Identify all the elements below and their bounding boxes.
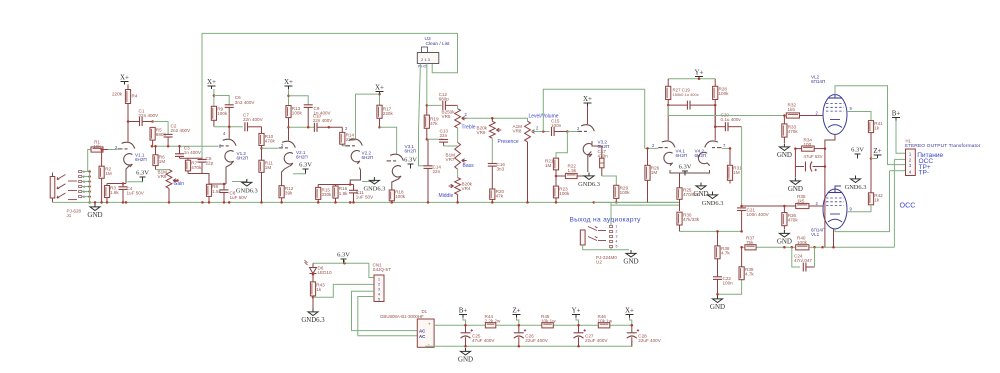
label R13 100k xyxy=(292,106,303,116)
label R40 100k xyxy=(797,236,808,246)
svg-text:GND: GND xyxy=(693,190,708,198)
svg-text:680p: 680p xyxy=(439,96,450,101)
ground GND6.3 at V4 xyxy=(702,192,724,208)
junction dots J1 bus xyxy=(88,170,91,203)
svg-text:100k: 100k xyxy=(217,111,228,116)
svg-text:1k: 1k xyxy=(874,126,880,131)
junction dot VR9 wiper xyxy=(176,179,179,182)
net flag B+ xyxy=(892,110,901,121)
label PJ-628 J1 xyxy=(67,209,82,219)
resistor R7 470k xyxy=(185,158,190,173)
junction dot C1 right xyxy=(151,120,154,123)
wire U2 body ground xyxy=(583,245,611,250)
pin number 2 V4.1 grid xyxy=(652,143,655,148)
capacitor C20 0.1u 400v xyxy=(715,122,741,131)
svg-text:AC: AC xyxy=(419,334,426,339)
capacitor C17 470n box xyxy=(600,146,604,176)
label C17 470n xyxy=(598,149,609,159)
svg-text:Treble: Treble xyxy=(462,124,476,130)
svg-text:47uF 400V: 47uF 400V xyxy=(472,338,495,343)
svg-text:VR9: VR9 xyxy=(158,174,167,179)
net flag Y+ PSU xyxy=(571,307,580,318)
svg-text:4: 4 xyxy=(616,240,618,244)
wire X+2 stem xyxy=(213,89,215,106)
label C11 1uF 50V xyxy=(356,190,374,200)
label R37 75k xyxy=(746,236,755,246)
label Pitanie xyxy=(917,152,943,159)
resistor R44 2.2k 2w xyxy=(485,323,495,328)
wire Y+ stem xyxy=(698,78,700,81)
svg-text:GND: GND xyxy=(87,211,102,219)
label R20 47k xyxy=(496,189,505,199)
svg-text:22uF 400V: 22uF 400V xyxy=(585,338,608,343)
wire U2 bottom to GND xyxy=(611,248,629,250)
junction dot loop2 tap xyxy=(542,130,545,133)
wire VL1 plate TR- loop xyxy=(835,186,841,190)
label R42 1k xyxy=(874,193,883,203)
triode V2.1 xyxy=(279,141,296,166)
resistor R19 47k xyxy=(424,105,429,139)
triode V1.2 xyxy=(219,139,236,164)
svg-text:U3: U3 xyxy=(425,36,431,42)
capacitor C9 1n 400V xyxy=(304,105,313,128)
capacitor C25 47uF 400V xyxy=(461,325,473,346)
label V1.2 6Н2П xyxy=(237,151,249,161)
svg-text:75k: 75k xyxy=(746,240,754,245)
wire C6 supply branch xyxy=(214,96,229,105)
junction dot plate node V1.1 xyxy=(127,120,130,123)
label R35 1k5 xyxy=(797,194,806,204)
label R7 470k xyxy=(191,161,202,171)
svg-text:6Н2П: 6Н2П xyxy=(135,157,147,162)
svg-text:22uF 400V: 22uF 400V xyxy=(525,338,548,343)
wire C20 down to C21 xyxy=(741,127,743,208)
wire plate node stage2 xyxy=(214,126,243,128)
wire VR5 to VR7 xyxy=(457,128,459,142)
heater net 6.3V PSU xyxy=(337,252,350,264)
label R22 1.5k xyxy=(568,164,577,174)
J1 pin header column xyxy=(79,170,85,199)
junction dot V1.2 plate node xyxy=(228,126,231,129)
triode V3.2 xyxy=(578,125,595,157)
junction dots cathode chain xyxy=(824,147,827,167)
ground GND below C22 xyxy=(710,296,725,312)
svg-text:150k0.1u 400v: 150k0.1u 400v xyxy=(673,92,699,97)
svg-text:STEREO OUTPUT Transformator: STEREO OUTPUT Transformator xyxy=(905,143,981,149)
junction dot V4.1 grid xyxy=(646,147,649,150)
svg-text:1M: 1M xyxy=(159,159,166,164)
label R19 47k xyxy=(430,117,439,127)
resistor R9 100k xyxy=(211,106,216,127)
label B1M VR7 xyxy=(446,152,456,162)
capacitor C19 0.1u 400v xyxy=(668,101,715,110)
junction dots bus stage2 xyxy=(223,201,263,204)
bridge rectifier D1 body xyxy=(417,319,434,347)
svg-text:3n3 400V: 3n3 400V xyxy=(235,100,256,105)
junction dot Y+ node xyxy=(698,78,701,81)
wire C15 to V3.2 grid xyxy=(567,131,578,133)
resistor R4 220k xyxy=(125,85,130,122)
triode V2.2 xyxy=(346,139,363,164)
label U3 pins xyxy=(418,65,427,69)
label R34 100 xyxy=(804,138,813,148)
pin number 9 VL2 xyxy=(850,106,853,111)
wire CN1 pin5 to D1 xyxy=(358,297,418,336)
label R8 1.5k xyxy=(212,184,221,194)
wire R14 to V2.2 grid xyxy=(342,145,350,147)
capacitor C13 22n xyxy=(439,140,448,147)
label VL2 6П14П xyxy=(811,75,825,85)
resistor R33 470k xyxy=(782,116,787,144)
triode V4.2 xyxy=(698,141,721,166)
resistor R15 330k xyxy=(316,185,321,203)
svg-text:GND: GND xyxy=(777,151,792,159)
ground GND at V4 xyxy=(693,183,708,199)
wire X+3 stem xyxy=(288,89,290,106)
net flag Y+ xyxy=(694,69,703,80)
net flag X+ fifth xyxy=(583,95,592,106)
ground GND PSU xyxy=(458,348,473,364)
resistor R31 1M xyxy=(727,148,732,183)
resistor R43 1k xyxy=(310,282,315,309)
svg-text:1.8k: 1.8k xyxy=(110,190,119,195)
wire R43 to CN1 xyxy=(313,284,374,297)
label OCC big xyxy=(900,201,916,210)
svg-text:Presence: Presence xyxy=(498,139,519,145)
label R32 1k5 xyxy=(788,103,797,113)
resistor R39 4.7k xyxy=(739,247,744,279)
label R12 39k xyxy=(285,186,294,196)
wire V1.2 plate lead xyxy=(228,127,230,139)
svg-text:GND6.3: GND6.3 xyxy=(236,188,258,195)
wire B+ filter rail xyxy=(434,324,632,326)
wire TR- vertical xyxy=(835,171,890,232)
wire cathodes join xyxy=(670,170,690,173)
pentode VL1 6П14П xyxy=(823,189,847,229)
wire PSU ground bus xyxy=(426,341,632,348)
label OCC pin xyxy=(919,158,934,165)
wire R32 from V4.1 plate xyxy=(668,105,786,115)
svg-text:X+: X+ xyxy=(583,95,592,103)
wire C24 bypass left xyxy=(792,247,800,267)
junction dots PSU ground bus xyxy=(464,345,580,348)
svg-text:22n 400V: 22n 400V xyxy=(313,118,334,123)
resistor R21 1M xyxy=(553,158,558,176)
junction dots ground bus left xyxy=(94,201,128,204)
svg-text:6.3V: 6.3V xyxy=(679,164,692,171)
label R5 680k xyxy=(156,128,167,138)
wire VL2 plate loop xyxy=(835,86,906,165)
junction dot R1-R2 xyxy=(100,148,103,151)
svg-text:1k: 1k xyxy=(316,287,322,292)
resistor R17 220k xyxy=(377,105,382,127)
capacitor C15 100n xyxy=(552,127,568,136)
heater pin 6.3V V2.1 xyxy=(299,162,312,174)
wire V3.1 cathode lead xyxy=(392,179,399,190)
label 6П14П VL1 xyxy=(811,228,825,238)
wire OCC feedback bus xyxy=(742,246,895,248)
label V2.2 6Н2П xyxy=(362,151,374,161)
svg-text:100n 400V: 100n 400V xyxy=(747,212,770,217)
svg-text:X+: X+ xyxy=(207,78,216,86)
junction dots bus V3.2 xyxy=(555,201,618,204)
pin number 2 VR5 wiper xyxy=(465,112,468,117)
pin number 4 V1.2 plate xyxy=(223,131,226,136)
svg-text:1M: 1M xyxy=(733,170,740,175)
resistor R36 470k xyxy=(782,206,787,230)
resistor R30 47k/33k xyxy=(677,212,682,231)
junction dots feedback bus xyxy=(716,230,743,233)
wire C13 to VR7 xyxy=(444,145,458,147)
svg-text:X+: X+ xyxy=(625,307,634,315)
junction dot R19 bottom xyxy=(426,138,429,141)
heater bracket V2.2 xyxy=(362,179,374,182)
svg-text:VR6: VR6 xyxy=(477,130,486,135)
wire R6 to VR9 xyxy=(156,169,170,171)
label TR+ xyxy=(919,164,931,171)
junction dot R17 bottom xyxy=(378,126,381,129)
wire R7 C5 bottoms xyxy=(188,174,209,185)
wire R17 to V3.1 plate xyxy=(380,127,397,153)
svg-text:0.1u 400v: 0.1u 400v xyxy=(721,117,742,122)
svg-text:470k: 470k xyxy=(788,129,799,134)
svg-text:22p: 22p xyxy=(206,160,214,165)
resistor R26 1M xyxy=(645,148,650,202)
wire VR6 bottom to C16 xyxy=(491,138,493,163)
net flag Z+ PSU xyxy=(512,307,520,318)
wire 6.3V rail xyxy=(313,263,374,277)
capacitor C11 1uF 50V xyxy=(349,185,358,203)
pin number 2 V1.1 grid xyxy=(115,145,118,150)
wire Z+ stem xyxy=(871,158,878,160)
label V3.2 6Н2П xyxy=(598,140,610,150)
wire V1.2 cathode lead xyxy=(226,164,232,184)
label R26 1M xyxy=(651,166,660,176)
label V2.1 6Н2П xyxy=(296,150,308,160)
label C12 680p xyxy=(439,92,450,102)
junction dot GND node below xyxy=(716,293,719,296)
label C8 1uF 50V xyxy=(230,190,248,200)
svg-text:Z+: Z+ xyxy=(873,147,881,155)
heater pin 6.3V VL xyxy=(851,147,864,159)
resistor R35 1k5 xyxy=(784,203,822,208)
svg-text:6Н2П: 6Н2П xyxy=(676,153,688,158)
wire Y+ rail xyxy=(668,78,715,80)
wire plate node stage3 xyxy=(289,126,315,128)
resistor R6 1M xyxy=(153,146,158,169)
wire R41 to R42 xyxy=(870,133,872,193)
svg-text:100k: 100k xyxy=(395,194,406,199)
label R1 10k xyxy=(93,140,101,150)
svg-text:GND6.3: GND6.3 xyxy=(578,181,600,188)
resistor R46 10k 1w xyxy=(598,323,610,328)
wire grid leak tap xyxy=(556,132,567,159)
resistor R2 1M xyxy=(99,150,104,203)
resistor R1 10k xyxy=(91,147,108,152)
label B250k VR5 xyxy=(442,110,456,120)
label C28 22uF 400V xyxy=(638,334,661,344)
wire V4.1 grid xyxy=(645,147,658,149)
label C2 2n2 400V xyxy=(171,123,192,133)
svg-text:22uF 400V: 22uF 400V xyxy=(638,338,661,343)
resistor R3 1.8k xyxy=(104,184,109,203)
svg-text:6Н2П: 6Н2П xyxy=(362,155,374,160)
junction dot R33 node xyxy=(783,114,786,117)
svg-text:47k: 47k xyxy=(496,193,504,198)
capacitor C22 100n xyxy=(713,277,722,294)
label C7 22n 400V xyxy=(243,113,264,123)
wire VL2 cathode down xyxy=(825,135,835,248)
label H1 xyxy=(906,139,912,144)
wire heater V1.1 xyxy=(127,181,142,183)
connector J1 PJ-628 input jack body xyxy=(50,173,55,203)
label C22 100n xyxy=(723,276,734,286)
resistor R20 47k xyxy=(490,189,495,202)
wire bus to U2 pins xyxy=(610,202,612,225)
svg-text:Bass: Bass xyxy=(463,163,475,169)
svg-text:Middle: Middle xyxy=(439,193,454,199)
potentiometer VR6 B20k Presence xyxy=(489,118,501,138)
svg-text:X+: X+ xyxy=(284,78,293,86)
wire PSU flag stem xyxy=(463,318,466,326)
svg-text:5: 5 xyxy=(616,245,618,249)
label C24 47n/.047 xyxy=(794,253,812,263)
svg-text:220k: 220k xyxy=(383,111,394,116)
svg-text:6Н2П: 6Н2П xyxy=(405,149,417,154)
wire V2.2 cathode lead xyxy=(350,168,360,185)
svg-text:PJ-05: PJ-05 xyxy=(418,65,427,69)
wire C17 bottom to R29 xyxy=(602,176,617,185)
ground GND6.3 at V1.2 xyxy=(236,179,258,195)
resistor R14 220k xyxy=(340,127,345,146)
label C5 22p xyxy=(206,156,214,166)
svg-text:Y+: Y+ xyxy=(571,307,580,315)
junction dot R36 node xyxy=(783,205,786,208)
svg-text:Z+: Z+ xyxy=(512,307,520,315)
capacitor C4 1uF 50V xyxy=(119,184,128,203)
svg-text:1k5: 1k5 xyxy=(788,107,796,112)
svg-text:470k: 470k xyxy=(788,218,799,223)
wire C3 bottom node xyxy=(180,157,203,159)
capacitor C21 100n 400V xyxy=(737,208,746,232)
capacitor C16 3n3 xyxy=(488,164,497,190)
wire splitter feedback bus xyxy=(680,230,742,232)
svg-text:LED10: LED10 xyxy=(318,270,332,275)
svg-text:2.2k 2w: 2.2k 2w xyxy=(485,318,502,323)
svg-text:J1: J1 xyxy=(67,213,72,218)
connector U2 PJ-324M0 body xyxy=(580,230,585,245)
capacitor C26 22uF 400V xyxy=(514,325,526,346)
U2 switch contacts xyxy=(588,227,606,241)
junction dot VR9 bus xyxy=(168,201,171,204)
potentiometer VR8 A1M Level xyxy=(525,121,537,202)
ground GND6.3 at V2.2 xyxy=(363,177,385,193)
svg-text:2n2 400V: 2n2 400V xyxy=(171,128,192,133)
label C1 22n 400V xyxy=(139,109,160,119)
junction dots filter rail xyxy=(464,324,633,327)
svg-text:100: 100 xyxy=(804,142,812,147)
label CN1 S4JQ-5T xyxy=(373,263,392,273)
svg-text:1uF 50V: 1uF 50V xyxy=(230,195,248,200)
triode V4.1 xyxy=(658,141,675,166)
svg-text:3n3: 3n3 xyxy=(497,167,505,172)
label Clean / List xyxy=(426,41,451,47)
label R45 10k 1w xyxy=(541,314,556,324)
resistor R5 680k xyxy=(150,127,155,146)
label R23 100k xyxy=(559,186,570,196)
junction dot bus stage3 xyxy=(280,201,283,204)
junction dot X+4 branch xyxy=(378,93,381,96)
label C13 22n xyxy=(440,128,449,138)
label C21 100n 400V xyxy=(747,208,770,218)
resistor R40 100k xyxy=(796,245,809,250)
pin number 2 V3.2 grid xyxy=(577,126,580,131)
wire J1 pin bus vertical xyxy=(89,172,91,203)
svg-text:6Н2П: 6Н2П xyxy=(695,153,707,158)
svg-text:1M: 1M xyxy=(545,163,552,168)
resistor R12 39k xyxy=(279,186,284,203)
label V4.2 6Н2П xyxy=(695,149,707,159)
label GBU808A-B1-3000HF xyxy=(380,314,424,319)
label R38 4.7k xyxy=(721,246,730,256)
ground GND6.3 at V3.2 xyxy=(578,173,600,189)
junction dots bus stage4 xyxy=(317,201,355,204)
label C20 0.1u 400v xyxy=(721,113,742,123)
svg-text:10k 1w: 10k 1w xyxy=(598,318,613,323)
junction dot VR8 bus xyxy=(526,201,529,204)
svg-text:+: + xyxy=(428,322,431,327)
junction dot X+2 branch xyxy=(213,94,216,97)
svg-text:GND: GND xyxy=(623,258,638,266)
wire V2.1 cathode lead xyxy=(282,166,291,186)
svg-text:GND: GND xyxy=(458,356,473,364)
wire list loop from level to V4 grid xyxy=(543,89,644,148)
wire U3 pin1 diagonal xyxy=(419,64,421,132)
pin number 9 VL1 xyxy=(850,207,853,212)
wire C12 to VR5 top xyxy=(457,105,459,108)
diode D6 LED10 xyxy=(305,260,317,282)
label R14 220k xyxy=(346,133,357,143)
label R25 470/820 xyxy=(683,188,700,198)
label R6 1M xyxy=(159,155,166,165)
ground GND at U2 xyxy=(623,250,638,266)
junction dot V2.2 cathode xyxy=(349,183,352,186)
svg-text:GND6.3: GND6.3 xyxy=(301,317,325,324)
label R27 C19 150k 0.1u 400v xyxy=(673,88,691,93)
svg-text:1: 1 xyxy=(616,225,618,229)
svg-text:Clean / List: Clean / List xyxy=(426,41,451,47)
wire R1 to grid xyxy=(108,148,118,151)
capacitor C5 22p xyxy=(198,158,207,173)
label Level/Volume xyxy=(529,114,559,120)
svg-text:VL1: VL1 xyxy=(811,232,820,237)
label R39 4.7k xyxy=(745,267,754,277)
svg-text:VR8: VR8 xyxy=(513,129,522,134)
svg-text:GND6.3: GND6.3 xyxy=(845,184,867,191)
label B1M VR9 xyxy=(158,169,168,179)
label R46 10k 1w xyxy=(598,314,613,324)
label R31 1M xyxy=(733,166,742,176)
wire PSU flag stem xyxy=(517,318,519,326)
capacitor C14 22n xyxy=(424,139,433,202)
junction dot V4.2 grid xyxy=(729,147,732,150)
resistor R13 100k xyxy=(286,106,291,141)
svg-text:Gain: Gain xyxy=(174,181,185,187)
svg-text:B+: B+ xyxy=(459,307,468,315)
label R44 2.2k 2w xyxy=(485,314,502,324)
wire OCC pin2 xyxy=(894,158,905,160)
triode V1.1 xyxy=(118,142,135,167)
